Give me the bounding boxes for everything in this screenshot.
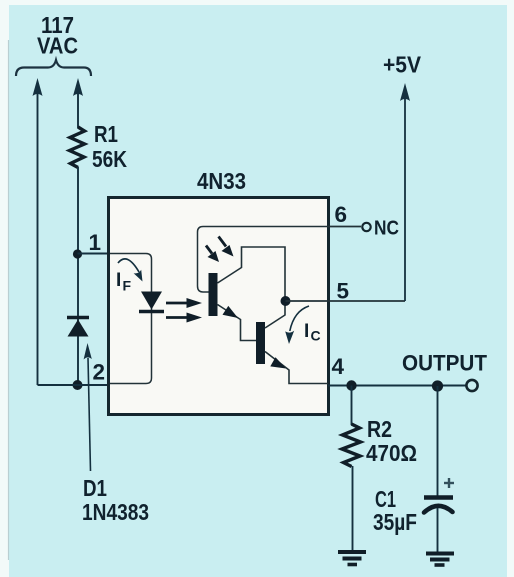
D1 pointer arrow	[84, 343, 92, 471]
wire: pin 6 to NC	[328, 226, 361, 228]
svg-text:2: 2	[93, 360, 106, 385]
+5V supply rail	[404, 97, 406, 301]
svg-text:470Ω: 470Ω	[366, 440, 417, 466]
svg-text:OUTPUT: OUTPUT	[402, 351, 487, 376]
capacitor C1	[424, 498, 453, 513]
light emission arrow lower	[166, 313, 202, 323]
svg-text:F: F	[123, 278, 132, 294]
label R2 470ohm	[366, 416, 417, 466]
svg-text:1: 1	[89, 230, 102, 255]
arrow up on right AC rail	[73, 78, 83, 96]
wire: pin 4 / output line	[328, 385, 466, 387]
svg-text:4: 4	[332, 354, 345, 379]
label IC	[304, 321, 321, 344]
brace for 117 VAC	[16, 60, 91, 76]
svg-text:+5V: +5V	[383, 52, 422, 78]
svg-text:I: I	[116, 270, 121, 291]
node dot at R2	[346, 380, 356, 390]
svg-text:D1: D1	[83, 475, 107, 501]
output open terminal	[466, 380, 477, 391]
wire: bottom AC to pin 2 horizontal	[38, 384, 111, 386]
Q1 emitter arrowhead	[223, 306, 239, 318]
resistor R1	[70, 127, 85, 168]
IC curved arrow	[285, 306, 309, 344]
svg-text:5: 5	[337, 279, 350, 304]
svg-text:1N4383: 1N4383	[82, 499, 149, 525]
node dot at pin2 junction	[73, 380, 83, 390]
node dot at pin1 junction	[73, 249, 82, 258]
LED D (emitter diode)	[139, 292, 164, 312]
wire: R2 bottom lead	[352, 466, 354, 550]
svg-text:6: 6	[335, 202, 348, 227]
node dot at C1	[432, 380, 443, 391]
Q2 emitter arrowhead	[270, 357, 286, 368]
wire: Q1 emitter to Q2 base	[218, 305, 257, 341]
wire: C1 top lead	[437, 386, 439, 496]
svg-text:R1: R1	[94, 121, 118, 147]
light arrow into Q1 upper	[219, 237, 234, 257]
wire: Q2 emitter to pin 4	[265, 352, 328, 384]
IC 4N33 package box	[109, 198, 329, 415]
label IF	[116, 270, 132, 294]
wire: R2 top lead	[351, 386, 353, 426]
svg-text:NC: NC	[374, 218, 399, 240]
light arrow into Q1 lower	[206, 246, 219, 263]
arrow up +5V	[400, 83, 410, 101]
svg-text:VAC: VAC	[37, 33, 78, 59]
NC open terminal	[362, 223, 370, 231]
wire: base lead to pin 6	[198, 227, 329, 293]
light emission arrow upper	[166, 298, 202, 308]
wire: Q2 collector	[265, 301, 285, 328]
plus sign for C1	[444, 478, 454, 488]
wire: right AC rail (top of R1)	[77, 92, 79, 128]
resistor R2	[342, 424, 361, 467]
wire: R1 bottom to node 1 to D1 to node 2	[77, 167, 79, 385]
wire: left AC rail	[37, 92, 39, 385]
svg-text:35µF: 35µF	[373, 509, 417, 535]
svg-text:R2: R2	[367, 416, 392, 442]
node: collector junction dot	[281, 296, 291, 306]
svg-text:C: C	[311, 328, 321, 344]
arrow up on left AC rail	[33, 78, 43, 96]
svg-text:56K: 56K	[92, 146, 127, 172]
svg-text:4N33: 4N33	[197, 168, 246, 194]
wire: pin 1 horizontal	[78, 253, 111, 255]
diode D1	[67, 318, 89, 337]
transistor Q1 base bar	[209, 273, 218, 316]
IF curved arrow	[118, 259, 143, 282]
svg-text:I: I	[304, 321, 309, 342]
label C1 35uF	[373, 486, 417, 535]
wire: C1 bottom lead	[437, 508, 439, 552]
ground under R2	[338, 552, 366, 565]
label 117 VAC	[37, 12, 78, 59]
ground under C1	[426, 554, 454, 566]
transistor Q2 base bar	[256, 322, 265, 364]
wire: pin 5 horizontal	[286, 300, 406, 302]
label R1 56K	[92, 121, 127, 172]
label D1 1N4383	[82, 475, 149, 525]
wire: LED loop (pin1 to pin2 inside package)	[110, 254, 152, 384]
wire: Q1 collector	[218, 247, 286, 301]
